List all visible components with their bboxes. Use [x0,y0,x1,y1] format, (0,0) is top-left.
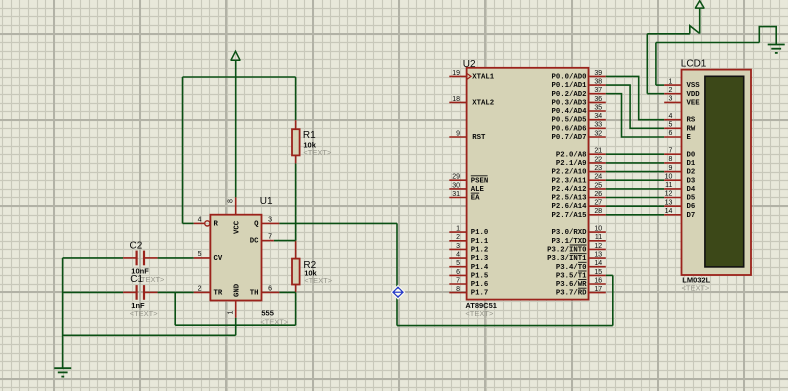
svg-text:<TEXT>: <TEXT> [465,309,494,318]
pin U2.12 [589,243,606,250]
wire VCC zigzag [690,26,700,34]
wire P2.3 to D3 [606,179,664,181]
pin U2.22 [589,156,606,163]
svg-text:9: 9 [668,165,672,172]
svg-text:6: 6 [268,285,272,292]
svg-text:31: 31 [452,191,460,198]
svg-text:CV: CV [214,255,223,263]
pin U1.1 GND bottom [227,301,235,318]
op 555 timer U1 body [210,215,261,301]
svg-text:25: 25 [594,182,602,189]
pin U2.15 [589,269,606,276]
resistor R1 [292,120,300,163]
svg-text:<TEXT>: <TEXT> [260,318,289,327]
svg-text:2: 2 [198,285,202,292]
svg-text:LCD1: LCD1 [681,58,707,69]
svg-text:<TEXT>: <TEXT> [303,148,332,157]
wire C1 right to TR pin [158,291,194,293]
svg-text:1: 1 [668,78,672,85]
svg-text:P2.7/A15: P2.7/A15 [551,212,586,220]
svg-text:5: 5 [198,251,202,258]
svg-text:P2.2/A10: P2.2/A10 [551,169,586,177]
svg-text:1: 1 [456,226,460,233]
svg-text:18: 18 [452,96,460,103]
pin U1.6 TH [262,285,280,292]
pin LCD1.11 D4 [664,182,696,194]
pin U2.24 [589,174,606,181]
svg-text:4: 4 [456,251,460,258]
wire 555 pin1 return bottom [63,334,236,336]
pin U2.8 [449,286,466,293]
wire TR link vertical [174,292,176,325]
svg-text:24: 24 [594,174,602,181]
pin U2.4 [449,251,466,258]
wire P0.2 to E [606,94,664,137]
wire VSS feeder horizontal [656,42,759,44]
pin U2.32 [589,130,606,137]
pin U2.21 [589,148,606,155]
svg-text:5: 5 [668,122,672,129]
wire VDD feeder horizontal [647,33,690,35]
ground symbol top-right [768,45,785,53]
svg-text:5: 5 [456,260,460,267]
resistor R2 [292,241,300,293]
svg-text:7: 7 [456,277,460,284]
LCD1 body [682,70,752,275]
pin U1.7 DC [262,234,274,241]
svg-text:D5: D5 [687,195,696,203]
wire P2.5 to D5 [606,197,664,199]
svg-text:E: E [687,134,692,142]
svg-text:P2.5/A13: P2.5/A13 [551,195,587,203]
svg-text:R: R [214,220,219,228]
svg-text:23: 23 [594,165,602,172]
svg-text:D7: D7 [687,212,696,220]
svg-text:EA: EA [471,195,480,203]
pin LCD1.7 D0 [664,147,695,159]
svg-text:P1.3: P1.3 [471,255,489,263]
wire P2.4 to D4 [606,188,664,190]
wire Q output vertical [396,223,398,325]
svg-text:7: 7 [668,147,672,154]
pin U1.5 CV [194,251,211,258]
svg-text:VEE: VEE [687,99,701,107]
svg-text:P3.0/RXD: P3.0/RXD [551,229,587,237]
svg-text:P1.6: P1.6 [471,281,489,289]
svg-text:P2.0/A8: P2.0/A8 [556,151,587,159]
svg-text:28: 28 [594,208,602,215]
wire VCC stem down [699,8,701,33]
svg-text:26: 26 [594,191,602,198]
svg-text:30: 30 [452,182,460,189]
pin U2.16 [589,277,606,284]
wire VCC arrow stem to 555 pin 8 [235,60,237,197]
svg-text:D4: D4 [687,186,696,194]
pin U2.17 [589,286,606,293]
svg-text:35: 35 [594,104,602,111]
pin LCD1.5 RW [664,122,696,134]
svg-text:P1.5: P1.5 [471,272,489,280]
pin LCD1.12 D5 [664,191,695,203]
pin U2.34 [589,113,606,120]
svg-text:RW: RW [687,125,696,133]
svg-text:37: 37 [594,87,602,94]
pin U2.25 [589,182,606,189]
svg-text:9: 9 [456,130,460,137]
svg-text:P2.3/A11: P2.3/A11 [551,177,587,185]
svg-text:C1: C1 [130,274,143,285]
pin U2.1 [449,226,466,233]
svg-text:8: 8 [456,286,460,293]
svg-text:6: 6 [456,269,460,276]
svg-text:4: 4 [668,113,672,120]
svg-text:<TEXT>: <TEXT> [130,309,159,318]
clock mark XTAL1 [467,73,471,79]
svg-text:19: 19 [452,70,460,77]
pin LCD1.13 D6 [664,199,695,211]
pin U1.8 VCC top [227,197,235,214]
svg-text:D3: D3 [687,177,696,185]
wire C2 right to CV pin [158,257,194,259]
node origin marker (blue diamond) [391,285,406,300]
svg-text:2: 2 [456,234,460,241]
svg-text:P0.3/AD3: P0.3/AD3 [551,99,587,107]
svg-text:8: 8 [668,156,672,163]
svg-text:P3.7/RD: P3.7/RD [556,290,587,298]
svg-text:TR: TR [214,289,223,297]
svg-text:11: 11 [665,182,672,189]
wire VSS feeder vertical [655,43,657,86]
svg-text:7: 7 [268,234,272,241]
wire VSS feeder to pin [656,84,664,86]
svg-text:P1.1: P1.1 [471,238,489,246]
wire P2.7 to D7 [606,214,664,216]
svg-text:<TEXT>: <TEXT> [682,283,711,292]
wire DC pin to R1/R2 node [274,240,296,242]
svg-text:P1.2: P1.2 [471,247,489,255]
svg-text:27: 27 [594,200,602,207]
svg-text:14: 14 [594,260,602,267]
pin U2.30 [449,182,466,189]
wire left ground rail vertical [62,258,64,368]
svg-text:1: 1 [227,311,234,315]
wire C2 row left segment [63,257,124,259]
pin U2.14 [589,260,606,267]
pin U2.35 [589,104,606,111]
pin LCD1.6 E [664,130,691,142]
wire P2.0 to D0 [606,153,664,155]
pin U2.10 [589,226,606,233]
svg-text:13: 13 [665,199,673,206]
svg-text:P0.7/AD7: P0.7/AD7 [551,134,586,142]
svg-text:P0.4/AD4: P0.4/AD4 [551,108,587,116]
pin U2.5 [449,260,466,267]
svg-text:32: 32 [594,130,602,137]
pin LCD1.1 VSS [664,78,700,90]
pin U2.26 [589,191,606,198]
pin U2.36 [589,96,606,103]
pin U2.9 [449,130,466,137]
svg-text:17: 17 [594,286,602,293]
pin U2.39 [589,70,606,77]
wire R1 bottom to DC node [295,163,297,240]
wire 555 pin1 down [235,318,237,336]
svg-text:P1.0: P1.0 [471,229,489,237]
svg-text:555: 555 [261,309,274,318]
pin LCD1.3 VEE [664,96,700,108]
wire TH pin to R2 bottom node [279,291,295,293]
svg-text:2: 2 [668,87,672,94]
wire reset horizontal [183,222,194,224]
svg-text:GND: GND [234,283,242,297]
svg-text:11: 11 [595,234,602,241]
pin U2.7 [449,277,466,284]
wire TH node down [295,292,297,325]
pin U1.2 TR [194,285,211,292]
pin LCD1.14 D7 [664,208,695,220]
svg-text:P0.5/AD5: P0.5/AD5 [551,117,586,125]
svg-text:14: 14 [665,208,673,215]
svg-text:8: 8 [227,199,234,203]
svg-text:P1.7: P1.7 [471,290,489,298]
svg-text:RST: RST [472,134,486,142]
pin U2.19 [449,70,466,77]
pin LCD1.10 D3 [664,173,696,185]
wire P2.6 to D6 [606,205,664,207]
svg-text:10: 10 [665,173,673,180]
svg-text:XTAL2: XTAL2 [472,99,494,107]
svg-text:D1: D1 [687,160,696,168]
pin U2.27 [589,200,606,207]
svg-text:34: 34 [594,113,602,120]
svg-text:36: 36 [594,96,602,103]
svg-text:U2: U2 [463,59,476,70]
svg-text:33: 33 [594,122,602,129]
svg-text:D0: D0 [687,151,696,159]
pin U2.38 [589,79,606,86]
svg-text:XTAL1: XTAL1 [472,74,495,82]
svg-text:P0.1/AD1: P0.1/AD1 [551,82,587,90]
pin U2.11 [589,234,606,241]
svg-text:4: 4 [198,216,202,223]
svg-text:38: 38 [594,79,602,86]
wire VDD feeder to pin [647,93,664,95]
pin LCD1.9 D2 [664,165,695,177]
svg-text:VCC: VCC [234,220,242,234]
wire P2.2 to D2 [606,171,664,173]
wire ground staple [759,27,776,45]
MCU U2 AT89C51 body [467,68,589,300]
wire C1/TR row left segment [63,291,124,293]
svg-text:12: 12 [665,191,673,198]
svg-text:13: 13 [594,251,602,258]
wire TR-TH link horizontal [175,324,295,326]
power VCC arrow (top right) [695,1,705,8]
svg-text:12: 12 [594,243,602,250]
svg-text:P0.6/AD6: P0.6/AD6 [551,125,586,133]
svg-text:VSS: VSS [687,82,701,90]
pin U2.23 [589,165,606,172]
capacitor C1 [123,285,158,300]
svg-text:21: 21 [594,148,602,155]
wire P2.1 to D1 [606,162,664,164]
svg-text:TH: TH [250,289,259,297]
svg-text:P2.1/A9: P2.1/A9 [556,160,587,168]
svg-text:39: 39 [594,70,602,77]
svg-text:C2: C2 [130,240,143,251]
svg-text:DC: DC [250,238,259,246]
svg-text:3: 3 [268,216,272,223]
wire P0.1 to RW [606,85,664,128]
svg-text:Q: Q [254,220,259,228]
pin U2.37 [589,87,606,94]
pin U2.28 [589,208,606,215]
svg-text:<TEXT>: <TEXT> [304,276,333,285]
pin LCD1.4 RS [664,113,696,125]
pin U2.29 [449,174,466,181]
svg-text:6: 6 [668,130,672,137]
svg-text:U1: U1 [260,196,273,207]
wire VCC rail horizontal [183,76,296,78]
pin U1.4 R (reset, bubble) [194,216,210,226]
svg-text:RS: RS [687,117,696,125]
wire VDD feeder vertical [646,34,648,94]
pin LCD1.8 D1 [664,156,696,168]
wire Q output bottom run [397,325,613,327]
svg-text:P0.2/AD2: P0.2/AD2 [551,91,586,99]
ground symbol bottom-left [54,368,71,376]
wire P0.0 to RS [606,76,664,119]
pin U2.31 [449,191,466,198]
svg-text:D6: D6 [687,203,696,211]
svg-text:PSEN: PSEN [471,177,489,185]
pin U2.3 [449,243,466,250]
wire VCC rail right vertical to R1 [295,77,297,120]
pin U2.13 [589,251,606,258]
wire VCC rail left vertical to reset [182,77,184,223]
svg-text:P0.0/AD0: P0.0/AD0 [551,74,586,82]
svg-text:15: 15 [594,269,602,276]
svg-text:16: 16 [594,277,602,284]
svg-text:29: 29 [452,174,460,181]
capacitor C2 [123,251,158,266]
svg-text:3: 3 [456,243,460,250]
pin LCD1.2 VDD [664,87,700,99]
wire into P3.5 stub [606,274,613,276]
pin U2.33 [589,122,606,129]
wire up to P3.5 [612,275,614,325]
svg-text:P2.4/A12: P2.4/A12 [551,186,586,194]
svg-text:P2.6/A14: P2.6/A14 [551,203,587,211]
power VCC arrow (555) [231,51,241,60]
svg-text:3: 3 [668,96,672,103]
svg-text:D2: D2 [687,169,696,177]
LCD1 screen [705,76,744,267]
svg-text:10: 10 [594,226,602,233]
pin U2.18 [449,96,466,103]
svg-text:22: 22 [594,156,602,163]
svg-text:VDD: VDD [687,91,701,99]
svg-text:P1.4: P1.4 [471,264,489,272]
pin U2.6 [449,269,466,276]
pin U1.3 Q [262,216,280,223]
wire Q output horizontal [279,222,397,224]
pin U2.2 [449,234,466,241]
